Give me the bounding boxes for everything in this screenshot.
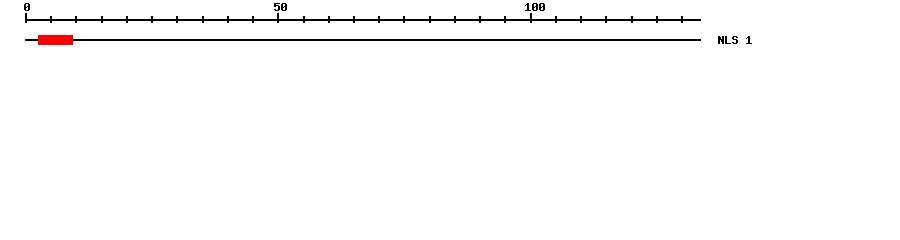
ruler minor tick 45 <box>252 16 254 23</box>
feature label NLS 1 <box>718 36 752 44</box>
ruler minor tick 25 <box>151 16 153 23</box>
ruler major tick 50 <box>277 13 279 23</box>
ruler minor tick 30 <box>176 16 178 23</box>
ruler major tick 100 <box>530 13 532 23</box>
sequence line <box>25 39 701 41</box>
ruler label 100 <box>525 3 545 11</box>
domain box NLS red <box>38 35 73 45</box>
ruler minor tick 120 <box>631 16 633 23</box>
ruler minor tick 20 <box>126 16 128 23</box>
ruler minor tick 55 <box>303 16 305 23</box>
ruler minor tick 60 <box>328 16 330 23</box>
ruler baseline <box>25 19 701 21</box>
ruler minor tick 15 <box>101 16 103 23</box>
ruler minor tick 95 <box>504 16 506 23</box>
ruler major tick 0 <box>25 13 27 23</box>
ruler minor tick 35 <box>202 16 204 23</box>
ruler minor tick 40 <box>227 16 229 23</box>
background <box>0 0 900 58</box>
ruler label 50 <box>274 3 287 11</box>
ruler minor tick 105 <box>555 16 557 23</box>
ruler minor tick 10 <box>75 16 77 23</box>
ruler minor tick 5 <box>50 16 52 23</box>
ruler minor tick 110 <box>580 16 582 23</box>
ruler minor tick 125 <box>656 16 658 23</box>
ruler minor tick 75 <box>403 16 405 23</box>
ruler minor tick 80 <box>429 16 431 23</box>
ruler minor tick 70 <box>378 16 380 23</box>
ruler minor tick 115 <box>605 16 607 23</box>
ruler minor tick 85 <box>454 16 456 23</box>
ruler minor tick 90 <box>479 16 481 23</box>
ruler label 0 <box>24 3 30 11</box>
ruler minor tick 65 <box>353 16 355 23</box>
ruler minor tick 130 <box>681 16 683 23</box>
